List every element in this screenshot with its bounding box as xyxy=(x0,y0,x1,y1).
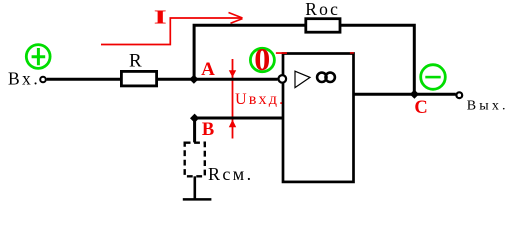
current arrow I (red polyline) xyxy=(101,18,243,45)
wire Rсм to ground stem xyxy=(194,142,197,199)
svg-text:Вх.: Вх. xyxy=(8,69,40,89)
svg-text:Вых.: Вых. xyxy=(467,99,507,114)
minus sign xyxy=(425,76,440,79)
voltage arrow line Uвхд (red vertical) xyxy=(232,59,234,139)
svg-text:Rсм.: Rсм. xyxy=(208,164,254,184)
resistor R xyxy=(121,71,156,86)
node B junction dot xyxy=(190,114,199,123)
plus sign xyxy=(32,48,46,65)
svg-text:Uвхд.: Uвхд. xyxy=(235,90,285,108)
svg-text:A: A xyxy=(201,59,215,80)
svg-text:C: C xyxy=(414,98,427,118)
svg-text:0: 0 xyxy=(254,41,270,77)
arrowhead down at node A wire xyxy=(229,70,236,77)
ground xyxy=(183,198,212,201)
arrowhead up at node B wire xyxy=(229,120,236,128)
input terminal circle Вх xyxy=(40,77,46,83)
output polarity minus (green circle) xyxy=(421,65,446,90)
red tick top-right corner xyxy=(350,52,354,53)
svg-text:B: B xyxy=(202,120,214,140)
op-amp infinity symbol xyxy=(317,73,326,82)
wire output horizontal xyxy=(354,93,456,96)
source polarity plus (green circle) xyxy=(26,45,50,69)
wire input horizontal xyxy=(47,78,278,81)
resistor Roc xyxy=(306,19,340,33)
op-amp U1 body xyxy=(283,54,354,182)
resistor Rсм (dashed) xyxy=(185,143,205,177)
wire feedback top: left vertical + top horizontal xyxy=(194,25,414,94)
svg-text:R: R xyxy=(129,50,142,71)
virtual zero marker (green ellipse) xyxy=(250,48,274,71)
wire node B horizontal xyxy=(195,118,284,142)
node A junction dot xyxy=(189,75,198,84)
red tick top-left corner xyxy=(276,52,287,54)
output terminal circle Вых xyxy=(456,92,462,98)
node C junction dot xyxy=(410,90,419,99)
op-amp triangle symbol xyxy=(295,71,310,87)
current arrow I head xyxy=(229,13,243,24)
svg-text:Roc: Roc xyxy=(305,0,340,19)
svg-text:I: I xyxy=(154,6,167,28)
op-amp input terminal circle xyxy=(279,75,287,83)
